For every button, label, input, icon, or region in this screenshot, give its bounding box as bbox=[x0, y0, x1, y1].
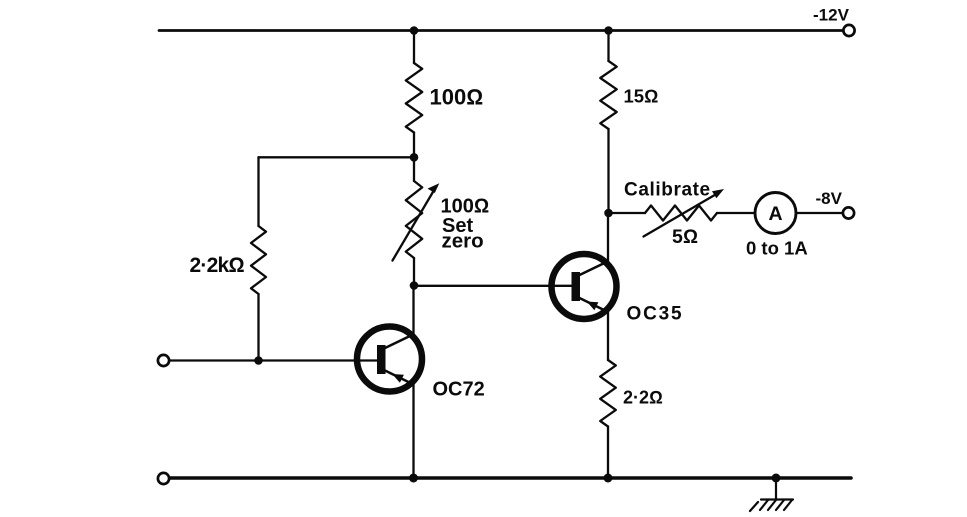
wire node C to R5 bbox=[609, 212, 646, 214]
wire top -12V supply rail bbox=[159, 29, 843, 32]
resistor 100Ω bbox=[406, 63, 422, 133]
wire ammeter to -8V terminal bbox=[796, 212, 843, 214]
wire R5 to ammeter bbox=[717, 212, 755, 214]
svg-text:Calibrate: Calibrate bbox=[624, 179, 711, 200]
junction bottom rail / ground bbox=[772, 474, 781, 483]
wire R15 to node C bbox=[607, 129, 609, 213]
wire Q1 emitter to bottom rail bbox=[412, 384, 414, 479]
junction bottom rail / R2.2 bbox=[604, 474, 613, 483]
ground bbox=[750, 478, 793, 511]
terminal -8V bbox=[843, 207, 854, 218]
svg-text:5Ω: 5Ω bbox=[672, 226, 698, 248]
svg-text:OC35: OC35 bbox=[627, 304, 684, 325]
wire 2.2k to input node bbox=[257, 294, 259, 361]
wire node C to Q2 collector bbox=[607, 213, 609, 262]
resistor 2.2Ω bbox=[600, 360, 616, 427]
svg-text:0 to 1A: 0 to 1A bbox=[746, 238, 808, 259]
junction top rail / R15 bbox=[604, 26, 613, 35]
node B junction (wiper bottom) bbox=[410, 281, 419, 290]
transistor Q1 OC72 bbox=[357, 327, 422, 392]
node A junction bbox=[410, 153, 419, 162]
svg-text:-12V: -12V bbox=[813, 6, 850, 25]
wire bottom rail bbox=[170, 476, 852, 480]
wire Q2 emitter to R2.2 bbox=[607, 311, 609, 360]
wire R2.2 to bottom rail bbox=[607, 427, 609, 479]
svg-text:15Ω: 15Ω bbox=[624, 86, 659, 107]
wire node B down to Q1 collector bbox=[412, 286, 414, 336]
wire top rail to R15 bbox=[607, 31, 609, 62]
svg-text:A: A bbox=[768, 203, 782, 225]
transistor Q2 OC35 bbox=[552, 254, 617, 319]
terminal -12V bbox=[843, 25, 854, 36]
junction bottom rail / Q1 bbox=[409, 474, 418, 483]
wire R1 to node A bbox=[413, 133, 415, 158]
svg-text:OC72: OC72 bbox=[433, 378, 485, 400]
terminal input left bbox=[158, 355, 169, 366]
resistor 2.2kΩ bbox=[251, 226, 266, 294]
ammeter A bbox=[755, 193, 796, 234]
svg-text:2·2kΩ: 2·2kΩ bbox=[190, 254, 245, 277]
svg-text:-8V: -8V bbox=[816, 189, 843, 208]
terminal input bottom bbox=[158, 473, 169, 484]
wire input to Q1 base bbox=[170, 359, 378, 361]
junction input / 2.2k bbox=[254, 356, 263, 365]
wire top rail to R1 bbox=[413, 31, 415, 64]
wire node A to R2 top bbox=[259, 156, 415, 158]
svg-text:100Ω: 100Ω bbox=[441, 195, 490, 217]
wire node B to Q2 base bbox=[414, 285, 572, 287]
svg-text:100Ω: 100Ω bbox=[430, 85, 484, 110]
node C junction bbox=[604, 209, 613, 218]
svg-text:2·2Ω: 2·2Ω bbox=[623, 387, 663, 407]
variable resistor 5Ω calibrate bbox=[644, 189, 725, 237]
variable resistor 100Ω set zero bbox=[393, 157, 440, 285]
wire left drop to 2.2k bbox=[257, 157, 259, 226]
svg-text:zero: zero bbox=[442, 230, 484, 253]
resistor 15Ω bbox=[600, 61, 616, 129]
junction top rail / R1 bbox=[410, 26, 419, 35]
